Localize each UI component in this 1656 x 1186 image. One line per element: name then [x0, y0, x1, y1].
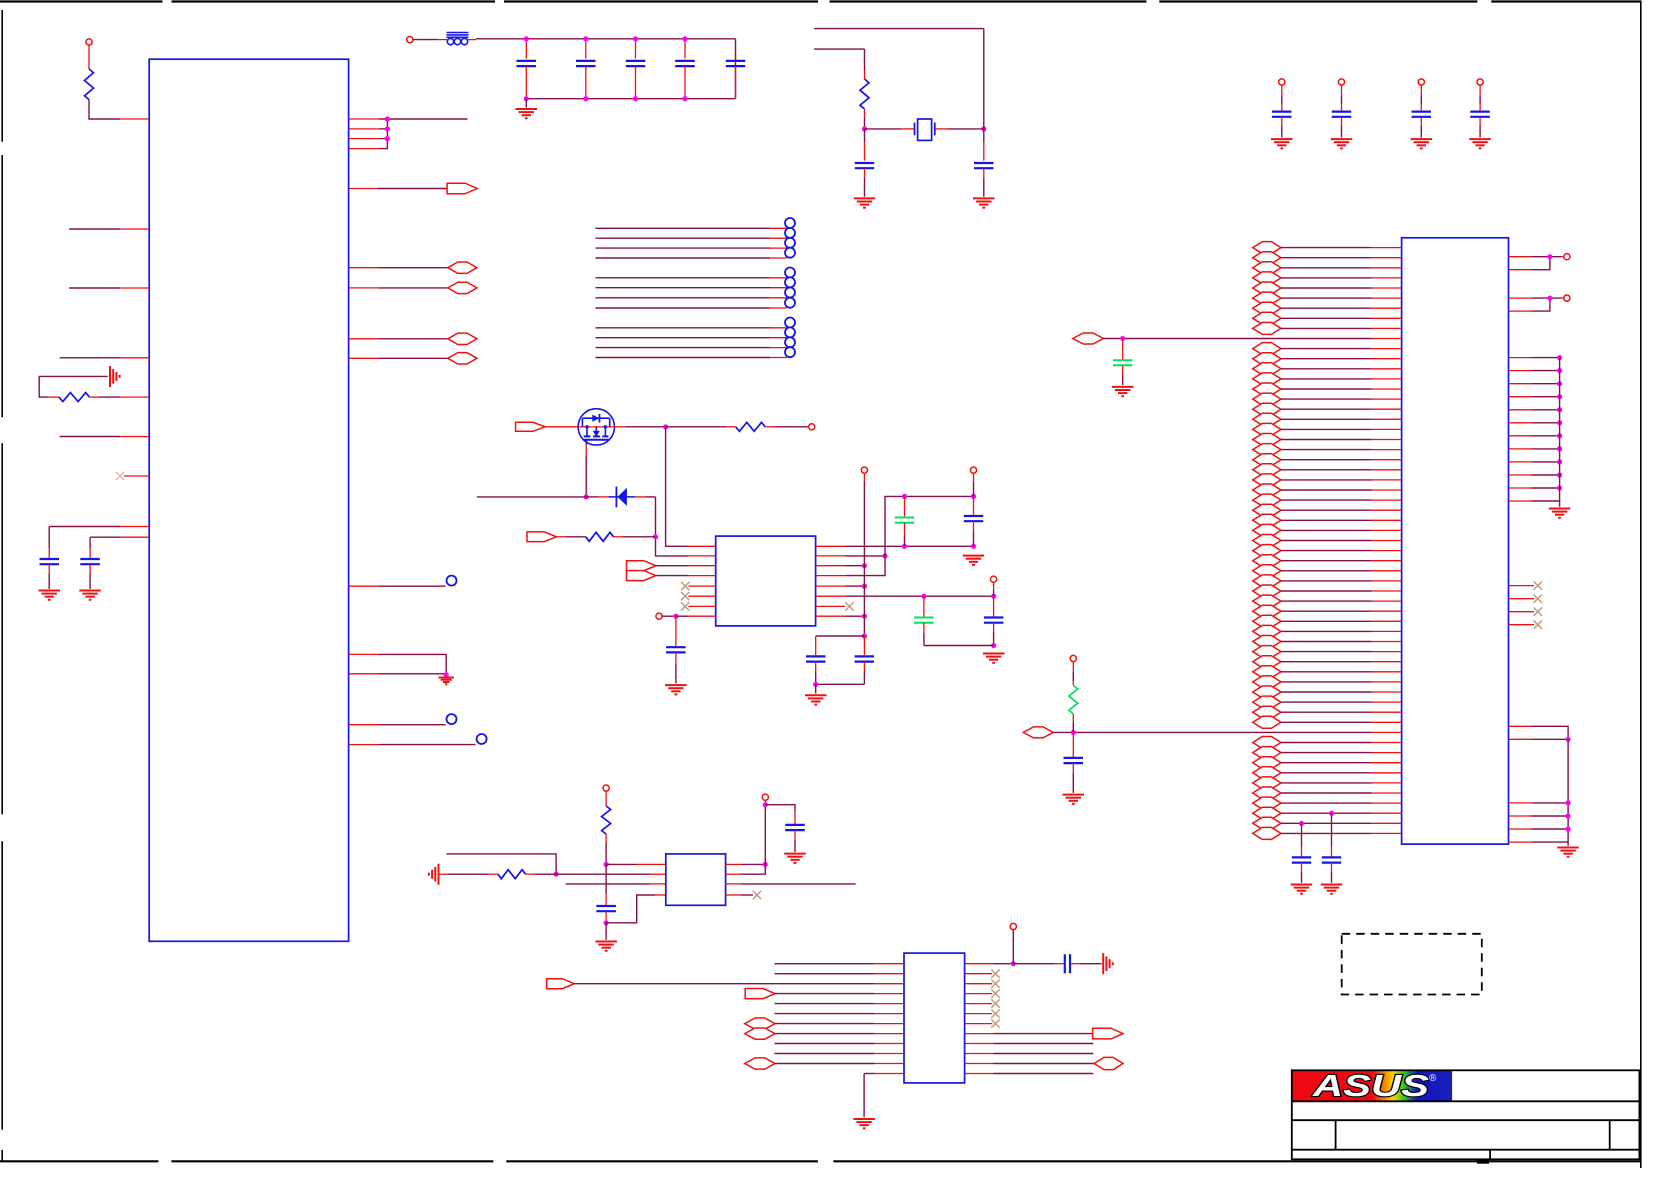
svg-text:ASUS: ASUS: [1312, 1068, 1430, 1103]
svg-text:®: ®: [1429, 1073, 1437, 1084]
